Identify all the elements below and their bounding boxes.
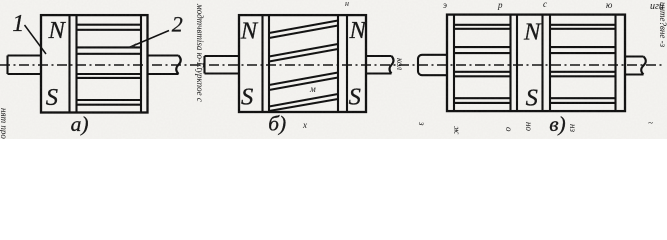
node A left shaft stub — [8, 56, 42, 75]
node B assembly outline — [239, 15, 366, 112]
node A assembly outline — [41, 15, 148, 112]
node C left shaft stub — [418, 55, 447, 75]
scan paper mottle — [0, 0, 1, 1]
wire centerline (dash-dot axis) — [0, 64, 662, 66]
scan noise glyphs — [0, 0, 667, 139]
node B skewed slot lines — [269, 21, 338, 112]
node A rotor lamination lines — [77, 25, 142, 105]
node C assembly outline — [447, 15, 625, 112]
node A right shaft stub with break — [148, 56, 181, 75]
node B right shaft stub with break — [366, 56, 394, 74]
node B left shaft stub — [205, 56, 240, 74]
wire leader 2 — [128, 31, 169, 49]
wire leader 1 — [25, 25, 47, 54]
node C left rotor lamination lines — [454, 25, 511, 103]
node C right shaft stub with break — [625, 57, 646, 75]
node C right rotor lamination lines — [550, 25, 616, 103]
